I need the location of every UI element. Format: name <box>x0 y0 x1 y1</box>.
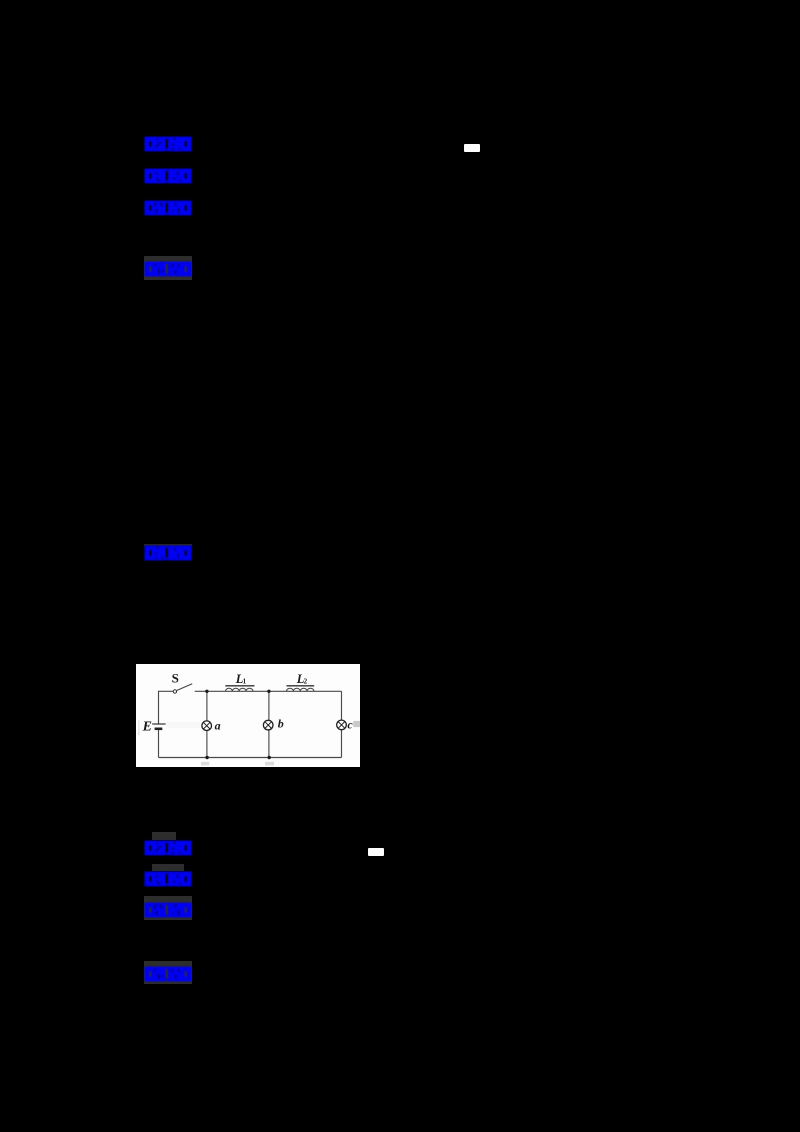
gray highlight behind 【分析】 Q2 <box>144 896 192 920</box>
label 【专题】 Q1 <box>144 168 192 184</box>
gray strip above 【点评】 Q1 <box>144 544 192 547</box>
label 【专题】 Q2 <box>144 871 192 887</box>
gray highlight behind 【解答】 Q2 <box>144 961 192 985</box>
inductor L2 coil <box>286 688 313 691</box>
gray patch above 【专题】 Q2 <box>152 864 184 871</box>
label 【解答】 Q1 <box>144 261 192 277</box>
gray highlight behind 【解答】 Q1 <box>144 256 192 281</box>
label 【点评】 Q1 <box>144 545 192 561</box>
svg-text:E: E <box>141 719 151 734</box>
wire top left segment <box>158 691 173 724</box>
inductor L2 core bar <box>286 684 314 686</box>
node top-left junction <box>205 689 208 692</box>
lamp a <box>201 721 211 731</box>
battery E plates <box>152 723 165 725</box>
svg-text:b: b <box>277 716 283 730</box>
inductor L1 coil <box>225 688 252 691</box>
svg-text:S: S <box>171 670 178 685</box>
node bottom-left junction <box>205 755 208 758</box>
switch blade <box>176 683 191 690</box>
wire left lower segment <box>157 728 159 757</box>
wire branch lamp b <box>267 691 269 757</box>
faint watermark marks <box>138 720 140 735</box>
wire right vertical <box>340 691 342 757</box>
label 【分析】 Q2 <box>144 902 192 918</box>
wire bottom <box>158 756 341 758</box>
node top-middle junction <box>267 689 270 692</box>
svg-text:a: a <box>214 718 220 732</box>
label 【分析】 Q1 <box>144 200 192 216</box>
svg-text:c: c <box>347 717 353 731</box>
white box 2 <box>368 848 384 856</box>
gray patch above 【考点】 Q2 <box>152 832 176 840</box>
wire top main <box>194 690 341 692</box>
switch S circle <box>173 689 176 692</box>
label 【考点】 Q2 <box>144 840 192 856</box>
lamp b <box>263 720 273 730</box>
inductor L1 core bar <box>225 684 254 686</box>
lamp c <box>336 720 346 730</box>
node bottom-middle junction <box>267 755 270 758</box>
label 【考点】 Q1 <box>144 136 192 152</box>
white box 1 <box>464 144 480 152</box>
svg-text:2: 2 <box>303 677 307 685</box>
svg-text:1: 1 <box>242 677 246 685</box>
label 【解答】 Q2 <box>144 966 192 982</box>
wire branch lamp a <box>205 691 207 757</box>
